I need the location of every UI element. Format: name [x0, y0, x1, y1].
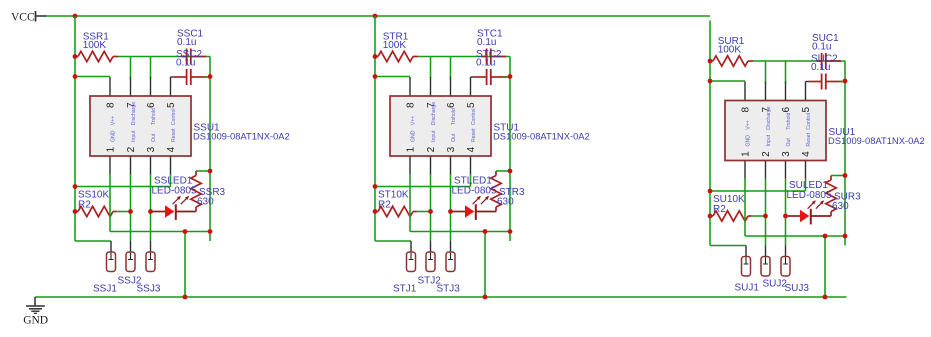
svg-text:SSJ1: SSJ1 — [93, 284, 117, 295]
svg-text:8: 8 — [106, 102, 117, 108]
svg-text:Discharge: Discharge — [131, 102, 137, 125]
svg-text:GND: GND — [411, 130, 417, 142]
svg-text:GND: GND — [111, 130, 117, 142]
svg-text:VCC: VCC — [11, 12, 35, 24]
svg-text:Trshold: Trshold — [151, 108, 157, 125]
svg-text:630: 630 — [197, 197, 214, 208]
svg-text:Out: Out — [786, 138, 792, 147]
svg-text:0.1u: 0.1u — [811, 62, 830, 73]
svg-text:Control: Control — [171, 108, 177, 125]
svg-text:8: 8 — [406, 102, 417, 108]
svg-text:GND: GND — [746, 135, 752, 147]
svg-text:Out: Out — [151, 133, 157, 142]
svg-text:Out: Out — [451, 133, 457, 142]
svg-text:630: 630 — [497, 197, 514, 208]
svg-text:Input: Input — [131, 130, 137, 142]
svg-text:4: 4 — [166, 146, 177, 152]
svg-text:Discharge: Discharge — [431, 102, 437, 125]
svg-text:0.1u: 0.1u — [812, 41, 831, 52]
svg-text:6: 6 — [446, 102, 457, 108]
svg-text:R2: R2 — [378, 199, 391, 210]
svg-text:5: 5 — [466, 102, 477, 108]
svg-text:SUJ1: SUJ1 — [735, 283, 760, 294]
svg-text:2: 2 — [126, 146, 137, 152]
svg-text:630: 630 — [832, 201, 849, 212]
svg-text:Reset: Reset — [171, 128, 177, 142]
svg-text:2: 2 — [761, 151, 772, 157]
svg-text:GND: GND — [23, 315, 48, 327]
svg-text:100K: 100K — [83, 40, 107, 51]
svg-text:0.1u: 0.1u — [177, 37, 196, 48]
svg-text:8: 8 — [741, 106, 752, 112]
svg-text:V++: V++ — [111, 116, 117, 126]
svg-text:4: 4 — [801, 151, 812, 157]
svg-text:5: 5 — [801, 106, 812, 112]
svg-text:5: 5 — [166, 102, 177, 108]
svg-text:Reset: Reset — [806, 132, 812, 146]
svg-text:R2: R2 — [78, 199, 91, 210]
svg-text:LED-0805: LED-0805 — [452, 185, 497, 196]
svg-text:100K: 100K — [718, 45, 742, 56]
svg-text:Reset: Reset — [471, 128, 477, 142]
svg-text:3: 3 — [146, 146, 157, 152]
svg-text:4: 4 — [466, 146, 477, 152]
svg-text:Input: Input — [766, 134, 772, 146]
svg-text:SSJ3: SSJ3 — [137, 284, 161, 295]
svg-text:STJ3: STJ3 — [437, 284, 461, 295]
svg-text:2: 2 — [426, 146, 437, 152]
svg-text:Control: Control — [471, 108, 477, 125]
svg-text:V++: V++ — [746, 120, 752, 130]
svg-text:Input: Input — [431, 130, 437, 142]
svg-text:0.1u: 0.1u — [477, 37, 496, 48]
svg-text:DS1009-08AT1NX-0A2: DS1009-08AT1NX-0A2 — [493, 131, 590, 142]
svg-text:SUJ3: SUJ3 — [785, 283, 810, 294]
svg-text:0.1u: 0.1u — [176, 58, 195, 69]
svg-text:1: 1 — [741, 151, 752, 157]
svg-text:R2: R2 — [713, 204, 726, 215]
svg-text:Discharge: Discharge — [766, 106, 772, 129]
svg-text:LED-0805: LED-0805 — [787, 190, 832, 201]
svg-text:6: 6 — [146, 102, 157, 108]
svg-text:100K: 100K — [383, 40, 407, 51]
svg-text:LED-0805: LED-0805 — [152, 185, 197, 196]
svg-text:3: 3 — [446, 146, 457, 152]
svg-text:Control: Control — [806, 113, 812, 130]
svg-text:1: 1 — [406, 146, 417, 152]
svg-text:Trshold: Trshold — [786, 112, 792, 129]
svg-text:1: 1 — [106, 146, 117, 152]
svg-text:DS1009-08AT1NX-0A2: DS1009-08AT1NX-0A2 — [193, 131, 290, 142]
svg-text:STJ1: STJ1 — [393, 284, 417, 295]
svg-text:3: 3 — [781, 151, 792, 157]
svg-text:0.1u: 0.1u — [476, 58, 495, 69]
svg-text:V++: V++ — [411, 116, 417, 126]
svg-text:6: 6 — [781, 106, 792, 112]
svg-text:Trshold: Trshold — [451, 108, 457, 125]
svg-text:DS1009-08AT1NX-0A2: DS1009-08AT1NX-0A2 — [828, 135, 925, 146]
